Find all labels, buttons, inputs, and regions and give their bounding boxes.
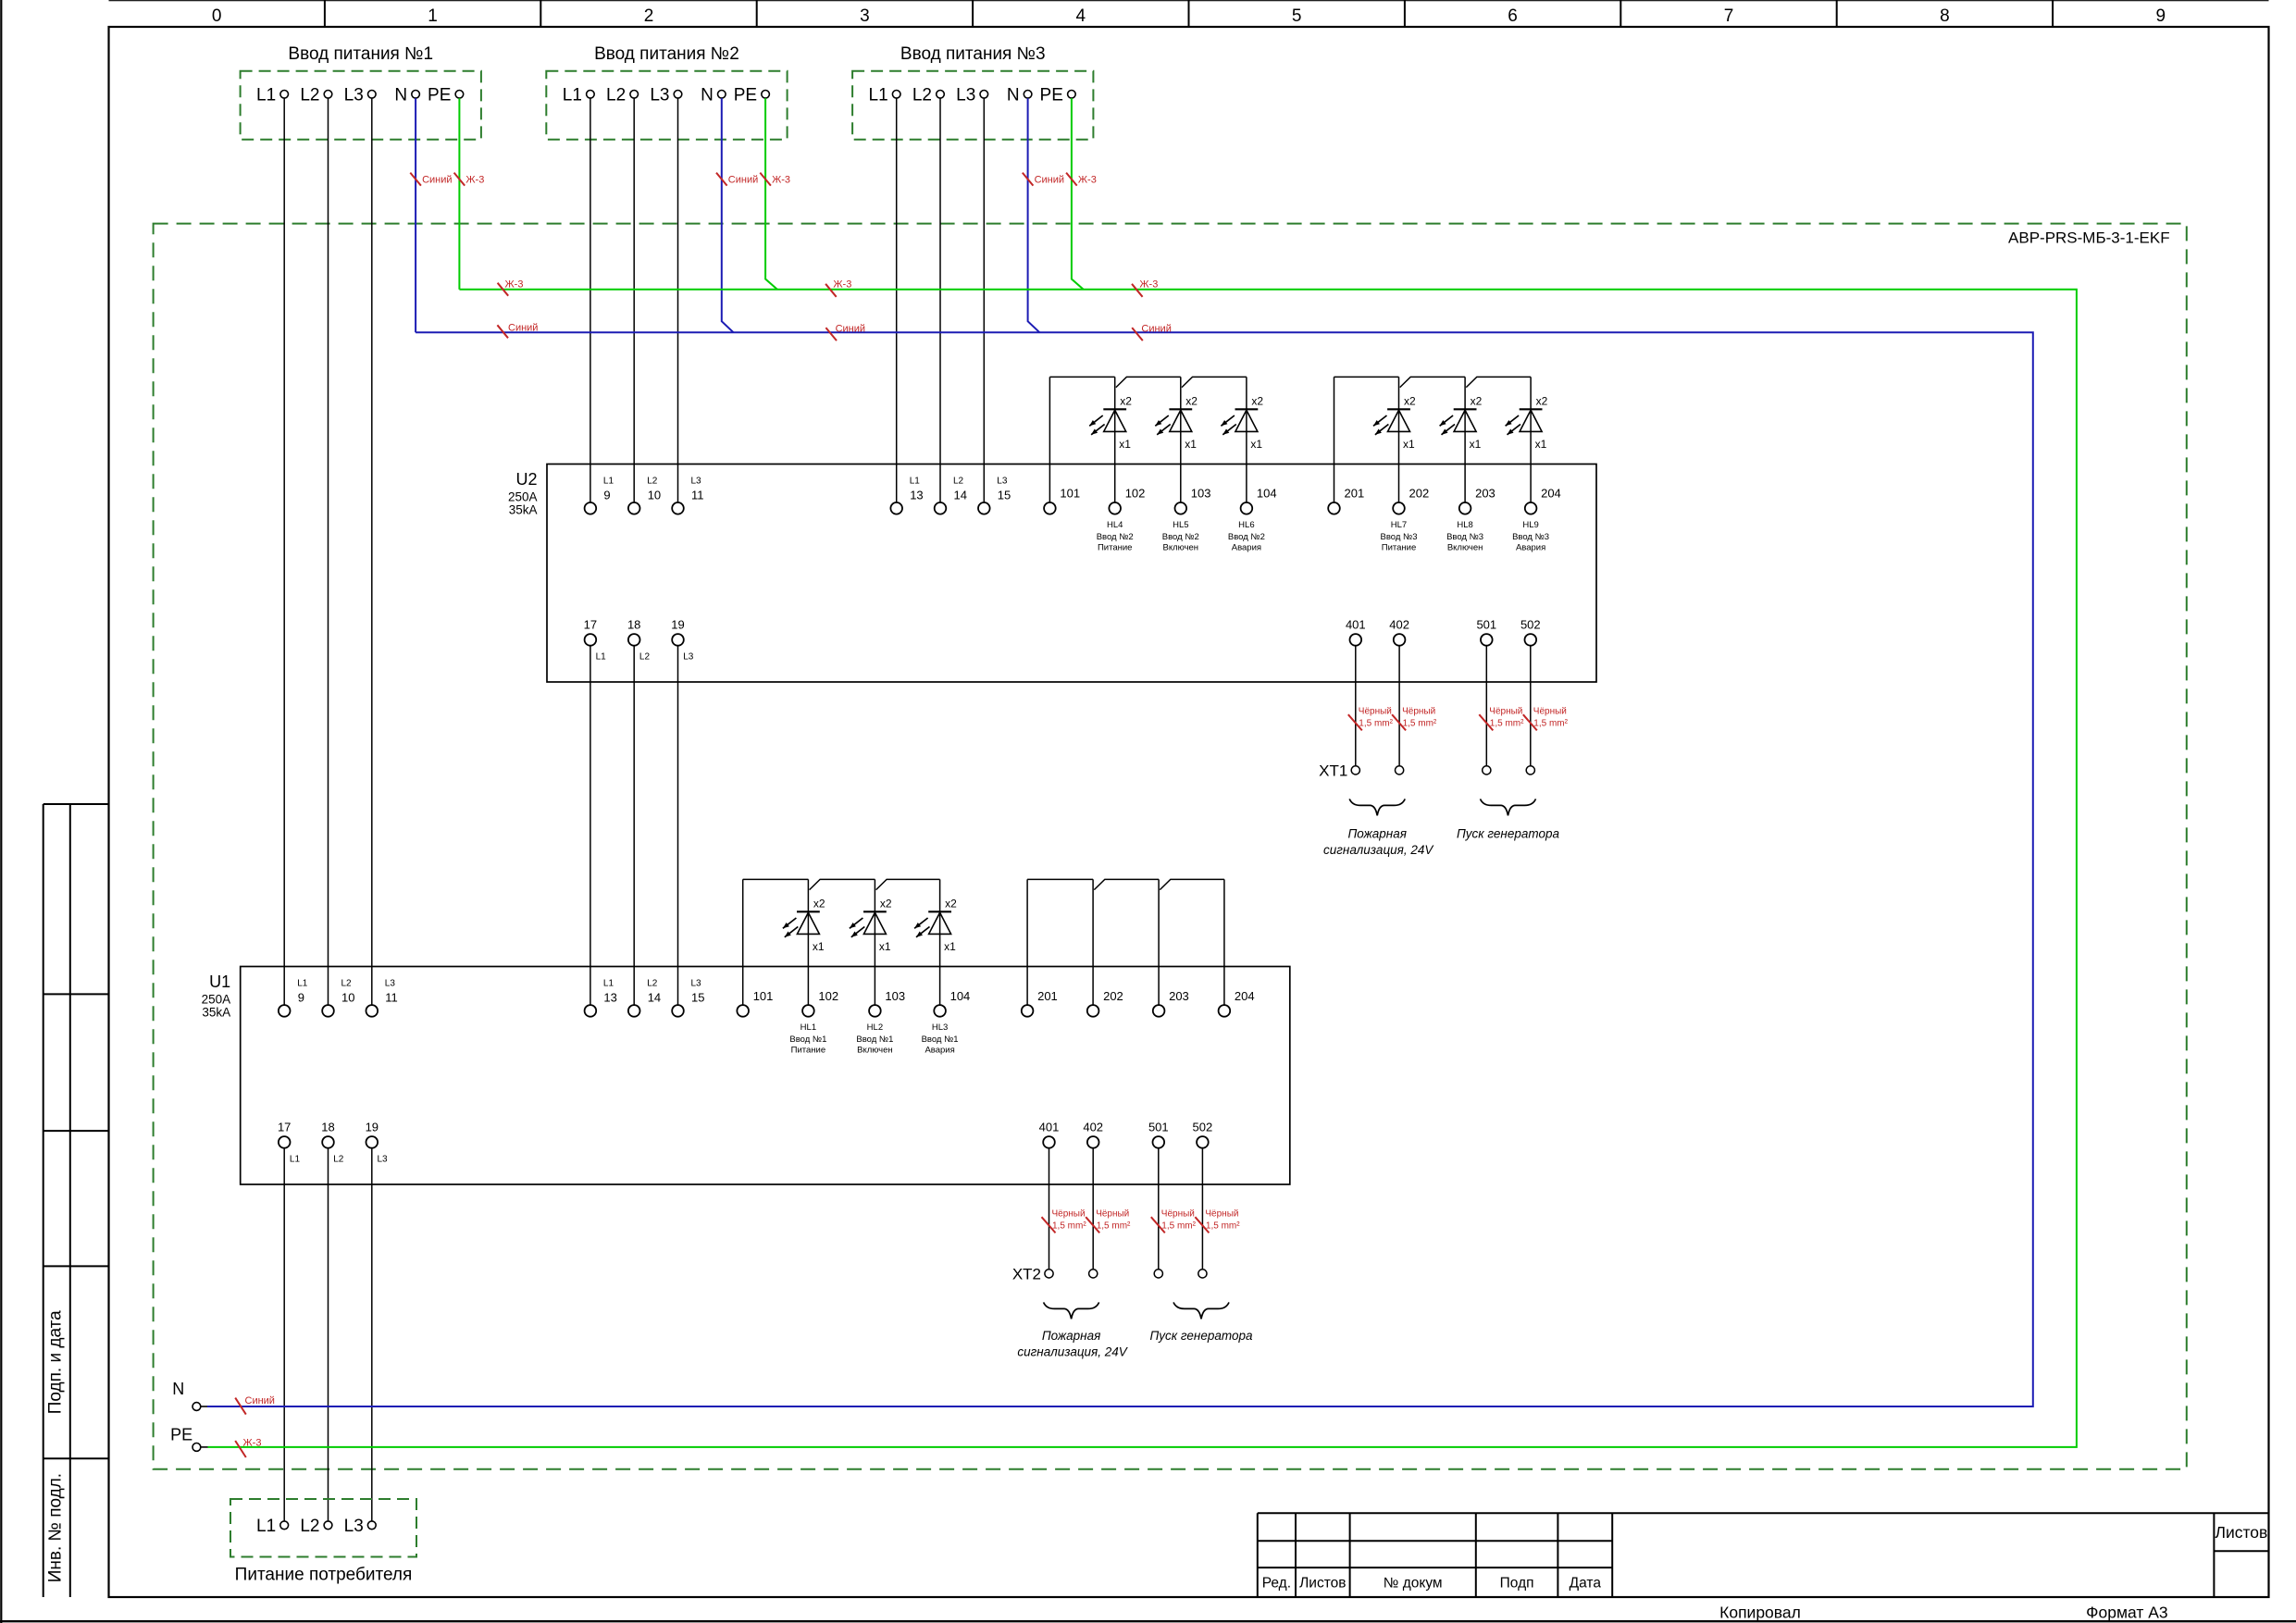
wire to XT2 pin 1: [1049, 1148, 1050, 1270]
svg-text:402: 402: [1083, 1120, 1103, 1134]
svg-text:Чёрный: Чёрный: [1161, 1209, 1195, 1220]
terminal 202 of U1: [1087, 1005, 1099, 1017]
red wire marking Чёрный (XT2 pin 1): [1042, 1209, 1087, 1233]
svg-text:Ввод №3: Ввод №3: [1380, 532, 1417, 542]
svg-text:x1: x1: [1185, 438, 1197, 451]
consumer terminal L1: [280, 1521, 289, 1530]
terminal 11 of U2: [672, 502, 684, 514]
N bus horizontal + right drop (blue): [207, 332, 2033, 1406]
wire U1 output 17 to consumer: [283, 1148, 285, 1521]
page border left edge: [0, 0, 2, 1623]
svg-text:Ввод №1: Ввод №1: [789, 1035, 826, 1045]
marking Ж-3 on bottom PE bus: [235, 1438, 261, 1458]
svg-text:9: 9: [298, 991, 304, 1005]
LED HL8: [1440, 377, 1477, 502]
svg-text:35kA: 35kA: [202, 1006, 230, 1020]
svg-text:1: 1: [428, 6, 438, 26]
svg-text:N: N: [394, 86, 407, 105]
red wire marking Чёрный (XT2 pin 3): [1151, 1209, 1197, 1233]
svg-text:PE: PE: [428, 86, 451, 105]
svg-text:L2: L2: [912, 86, 932, 105]
svg-text:HL4: HL4: [1107, 520, 1123, 530]
wire U2 output 17-13 to U1 input: [590, 646, 591, 1005]
svg-text:x2: x2: [813, 898, 825, 911]
svg-text:x2: x2: [880, 898, 892, 911]
svg-text:104: 104: [1257, 487, 1277, 501]
svg-text:PE: PE: [734, 86, 757, 105]
terminal 14 of U2: [935, 502, 947, 514]
terminal 402: [1394, 634, 1406, 646]
svg-text:Синий: Синий: [836, 324, 865, 335]
svg-text:x2: x2: [945, 898, 957, 911]
svg-text:x1: x1: [1535, 438, 1547, 451]
svg-text:x2: x2: [1251, 395, 1263, 408]
red wire marking Чёрный (XT1 pin 3): [1479, 707, 1524, 731]
svg-text:Питание потребителя: Питание потребителя: [235, 1566, 413, 1585]
svg-text:Ввод питания №2: Ввод питания №2: [594, 44, 739, 64]
LED HL1: [783, 879, 820, 1005]
svg-text:L3: L3: [385, 979, 396, 989]
terminal L1 of Ввод №1: [280, 91, 289, 99]
wire PE Ввод №2 joint: [765, 98, 777, 290]
marking Синий on N bus (1): [497, 323, 538, 339]
node PE: [170, 1426, 207, 1452]
terminal N of Ввод №3: [1024, 91, 1032, 99]
svg-text:10: 10: [648, 489, 661, 502]
svg-text:17: 17: [584, 617, 597, 631]
wire N Ввод №3 joint: [1028, 98, 1040, 332]
terminal 401: [1350, 634, 1362, 646]
marking Ж-3 on PE wire Ввод №2: [760, 173, 790, 186]
svg-text:19: 19: [366, 1120, 379, 1134]
terminal 11 of U1: [366, 1005, 379, 1017]
wire PE Ввод №3 joint: [1072, 98, 1084, 290]
svg-text:201: 201: [1345, 487, 1365, 501]
svg-text:402: 402: [1389, 617, 1409, 631]
XT1 terminal 3: [1483, 766, 1491, 774]
svg-text:Синий: Синий: [1035, 175, 1064, 186]
terminal 101 of U2: [1044, 502, 1056, 514]
svg-text:x1: x1: [944, 940, 956, 953]
svg-text:Ввод №1: Ввод №1: [856, 1035, 893, 1045]
terminal 17: [279, 1136, 291, 1148]
svg-text:Дата: Дата: [1570, 1576, 1602, 1592]
svg-text:HL9: HL9: [1522, 520, 1538, 530]
svg-text:1,5 mm²: 1,5 mm²: [1161, 1221, 1196, 1232]
svg-text:Синий: Синий: [508, 323, 538, 334]
terminal 17: [585, 634, 597, 646]
svg-text:L2: L2: [647, 477, 658, 487]
terminal 10 of U1: [322, 1005, 334, 1017]
terminal 102 of U2: [1109, 502, 1121, 514]
terminal 18: [628, 634, 640, 646]
red wire marking Чёрный (XT1 pin 4): [1523, 707, 1569, 731]
svg-text:13: 13: [603, 991, 616, 1005]
brace generator start (XT1): [1481, 799, 1536, 815]
consumer box Питание потребителя: [230, 1499, 416, 1557]
wire L2 Ввод №1 to U1 terminal: [328, 98, 329, 1005]
svg-text:104: 104: [950, 989, 971, 1003]
cabinet dashed boundary АВР-PRS-МБ-3-1-EKF: [154, 224, 2187, 1469]
svg-text:L2: L2: [300, 1517, 319, 1536]
wire L3 Ввод №3 to U2 terminal: [983, 98, 985, 502]
svg-text:5: 5: [1292, 6, 1302, 26]
svg-text:PE: PE: [1040, 86, 1063, 105]
wire bus over terminals 201-204 (U1): [1027, 879, 1224, 1005]
svg-text:сигнализация, 24V: сигнализация, 24V: [1017, 1344, 1128, 1358]
svg-text:Ж-3: Ж-3: [505, 279, 524, 291]
svg-text:L2: L2: [606, 86, 626, 105]
terminal L3 of Ввод №3: [980, 91, 988, 99]
svg-text:Ж-3: Ж-3: [1078, 175, 1097, 186]
wire U1 output 18 to consumer: [328, 1148, 329, 1521]
input feeder box Ввод питания №1: [241, 71, 481, 140]
svg-text:x1: x1: [1470, 438, 1482, 451]
wire N Ввод №1 (blue drop): [415, 98, 416, 332]
wire U2 output 18-14 to U1 input: [633, 646, 635, 1005]
svg-text:0: 0: [212, 6, 222, 26]
svg-text:L1: L1: [596, 651, 607, 662]
svg-text:Инв. № подл.: Инв. № подл.: [46, 1473, 66, 1582]
svg-text:L1: L1: [910, 477, 921, 487]
svg-text:L3: L3: [683, 651, 694, 662]
svg-text:N: N: [1007, 86, 1020, 105]
marking Синий on N wire Ввод №3: [1023, 173, 1064, 186]
svg-text:Ввод питания №3: Ввод питания №3: [900, 44, 1046, 64]
wire L3 Ввод №1 to U1 terminal: [371, 98, 373, 1005]
wire to XT1 pin 4: [1530, 646, 1532, 766]
svg-text:250A: 250A: [202, 993, 231, 1007]
terminal 18: [322, 1136, 334, 1148]
svg-text:401: 401: [1346, 617, 1366, 631]
svg-text:6: 6: [1508, 6, 1518, 26]
node N: [172, 1380, 207, 1410]
svg-text:103: 103: [885, 989, 905, 1003]
svg-text:L3: L3: [691, 477, 702, 487]
XT2 terminal 1: [1045, 1270, 1053, 1278]
XT2 terminal 3: [1154, 1270, 1162, 1278]
LED HL6: [1221, 377, 1258, 502]
svg-text:102: 102: [818, 989, 838, 1003]
svg-text:502: 502: [1193, 1120, 1213, 1134]
terminal 103 of U2: [1175, 502, 1187, 514]
page border top edge: [109, 0, 2269, 2]
wire L2 Ввод №2 to U2 terminal: [633, 98, 635, 502]
svg-text:Ввод №2: Ввод №2: [1162, 532, 1199, 542]
svg-text:1,5 mm²: 1,5 mm²: [1052, 1221, 1086, 1232]
svg-text:Ж-3: Ж-3: [1139, 279, 1158, 291]
terminal 9 of U1: [279, 1005, 291, 1017]
wire L1 Ввод №1 to U1 terminal: [283, 98, 285, 1005]
svg-text:N: N: [701, 86, 714, 105]
svg-text:1,5 mm²: 1,5 mm²: [1490, 719, 1524, 729]
svg-text:HL5: HL5: [1173, 520, 1188, 530]
svg-text:Ж-3: Ж-3: [465, 175, 484, 186]
svg-text:Чёрный: Чёрный: [1359, 707, 1392, 717]
svg-text:Копировал: Копировал: [1719, 1604, 1801, 1622]
terminal 103 of U1: [869, 1005, 881, 1017]
svg-text:XT2: XT2: [1012, 1265, 1041, 1282]
svg-text:L3: L3: [650, 86, 669, 105]
terminal 104 of U1: [934, 1005, 946, 1017]
wire L1 Ввод №3 to U2 terminal: [896, 98, 898, 502]
svg-text:1,5 mm²: 1,5 mm²: [1359, 719, 1393, 729]
XT2 terminal 2: [1089, 1270, 1098, 1278]
svg-text:4: 4: [1076, 6, 1086, 26]
svg-text:Питание: Питание: [1098, 543, 1133, 553]
svg-text:HL7: HL7: [1391, 520, 1407, 530]
svg-text:103: 103: [1191, 487, 1211, 501]
svg-text:Ж-3: Ж-3: [833, 279, 851, 291]
terminal 501: [1153, 1136, 1165, 1148]
terminal 501: [1481, 634, 1493, 646]
consumer terminal L3: [367, 1521, 376, 1530]
svg-text:HL2: HL2: [867, 1022, 883, 1033]
svg-text:№ докум: № докум: [1384, 1576, 1443, 1592]
marking Синий on N wire Ввод №2: [716, 173, 758, 186]
terminal L1 of Ввод №3: [892, 91, 900, 99]
svg-text:HL3: HL3: [932, 1022, 948, 1033]
svg-text:HL8: HL8: [1457, 520, 1472, 530]
svg-text:Включен: Включен: [857, 1046, 893, 1056]
svg-text:x2: x2: [1404, 395, 1416, 408]
terminal L1 of Ввод №2: [587, 91, 595, 99]
terminal L2 of Ввод №1: [324, 91, 332, 99]
svg-text:L3: L3: [956, 86, 975, 105]
svg-text:9: 9: [2156, 6, 2166, 26]
svg-text:U1: U1: [209, 973, 230, 991]
marking Синий on bottom N bus: [235, 1395, 275, 1415]
terminal 15 of U1: [672, 1005, 684, 1017]
ATS unit U1 box: [241, 967, 1290, 1185]
svg-text:Синий: Синий: [422, 175, 452, 186]
svg-text:202: 202: [1409, 487, 1430, 501]
svg-text:Ввод №3: Ввод №3: [1446, 532, 1483, 542]
LED HL2: [850, 879, 887, 1005]
svg-text:x1: x1: [1119, 438, 1131, 451]
terminal PE of Ввод №1: [455, 91, 464, 99]
svg-text:АВР-PRS-МБ-3-1-EKF: АВР-PRS-МБ-3-1-EKF: [2008, 229, 2170, 247]
svg-text:1,5 mm²: 1,5 mm²: [1403, 719, 1437, 729]
svg-text:3: 3: [860, 6, 870, 26]
LED HL9: [1506, 377, 1543, 502]
svg-text:Чёрный: Чёрный: [1533, 707, 1567, 717]
left attribute strip table: [43, 804, 109, 1597]
svg-text:1,5 mm²: 1,5 mm²: [1206, 1221, 1240, 1232]
svg-text:L3: L3: [378, 1154, 389, 1164]
terminal 202 of U2: [1393, 502, 1405, 514]
svg-text:Пожарная: Пожарная: [1042, 1329, 1100, 1343]
red wire marking Чёрный (XT2 pin 2): [1086, 1209, 1131, 1233]
svg-text:17: 17: [278, 1120, 291, 1134]
XT1 terminal 1: [1351, 766, 1359, 774]
wire U1 output 19 to consumer: [371, 1148, 373, 1521]
terminal L3 of Ввод №2: [674, 91, 682, 99]
brace fire alarm (XT1): [1349, 799, 1405, 815]
svg-text:Авария: Авария: [1232, 543, 1261, 553]
marking Ж-3 on PE wire Ввод №3: [1066, 173, 1097, 186]
svg-text:L1: L1: [869, 86, 888, 105]
marking Ж-3 on PE bus (1): [498, 279, 524, 296]
wire bus feeding HL1-HL3 from terminal 101 (U1): [743, 879, 940, 1005]
svg-text:L1: L1: [563, 86, 582, 105]
terminal 19: [366, 1136, 379, 1148]
svg-text:Питание: Питание: [791, 1046, 826, 1056]
terminal 402: [1087, 1136, 1099, 1148]
svg-text:Чёрный: Чёрный: [1402, 707, 1435, 717]
svg-text:XT1: XT1: [1319, 762, 1347, 779]
svg-text:250A: 250A: [508, 490, 538, 504]
svg-text:N: N: [172, 1380, 184, 1398]
svg-text:L2: L2: [333, 1154, 344, 1164]
svg-text:9: 9: [603, 489, 610, 502]
terminal 102 of U1: [802, 1005, 814, 1017]
svg-text:15: 15: [691, 991, 704, 1005]
svg-text:L2: L2: [341, 979, 353, 989]
svg-text:Ввод питания №1: Ввод питания №1: [288, 44, 433, 64]
svg-text:19: 19: [671, 617, 684, 631]
svg-text:13: 13: [910, 489, 923, 502]
svg-text:Синий: Синий: [245, 1395, 275, 1406]
svg-text:14: 14: [648, 991, 661, 1005]
svg-text:x1: x1: [879, 940, 891, 953]
svg-text:Авария: Авария: [1516, 543, 1545, 553]
red wire marking Чёрный (XT1 pin 2): [1392, 707, 1437, 731]
LED HL3: [914, 879, 951, 1005]
wire to XT1 pin 3: [1485, 646, 1487, 766]
svg-text:201: 201: [1037, 989, 1058, 1003]
svg-text:Ж-3: Ж-3: [772, 175, 790, 186]
svg-text:HL6: HL6: [1238, 520, 1254, 530]
svg-text:L3: L3: [691, 979, 702, 989]
svg-text:14: 14: [954, 489, 967, 502]
svg-text:10: 10: [341, 991, 354, 1005]
terminal N of Ввод №2: [718, 91, 726, 99]
XT1 terminal 2: [1396, 766, 1404, 774]
svg-text:L1: L1: [256, 86, 276, 105]
column ruler numbers 0-9: [212, 6, 2166, 26]
marking Ж-3 on PE wire Ввод №1: [454, 173, 485, 186]
svg-text:Питание: Питание: [1382, 543, 1417, 553]
svg-text:Ввод №3: Ввод №3: [1512, 532, 1549, 542]
marking Синий on N bus (3): [1132, 324, 1172, 341]
svg-text:Чёрный: Чёрный: [1205, 1209, 1238, 1220]
brace generator start (XT2): [1173, 1302, 1229, 1319]
svg-text:Листов: Листов: [2215, 1523, 2267, 1542]
svg-text:11: 11: [691, 489, 704, 502]
terminal 203 of U1: [1153, 1005, 1165, 1017]
svg-text:18: 18: [627, 617, 640, 631]
svg-text:L2: L2: [639, 651, 651, 662]
svg-text:L3: L3: [344, 86, 364, 105]
title block table: [1258, 1513, 2269, 1597]
terminal 10 of U2: [628, 502, 640, 514]
svg-text:Синий: Синий: [728, 175, 758, 186]
ATS unit U2 box: [547, 465, 1596, 683]
terminal L3 of Ввод №1: [368, 91, 377, 99]
svg-text:Ж-3: Ж-3: [243, 1438, 262, 1449]
svg-text:x2: x2: [1536, 395, 1548, 408]
svg-text:x1: x1: [813, 940, 825, 953]
svg-text:L3: L3: [344, 1517, 364, 1536]
svg-text:Включен: Включен: [1447, 543, 1483, 553]
svg-text:Ред.: Ред.: [1262, 1576, 1291, 1592]
svg-text:Подп. и дата: Подп. и дата: [46, 1310, 66, 1414]
svg-text:L1: L1: [603, 477, 614, 487]
svg-text:PE: PE: [170, 1426, 192, 1444]
wire bus feeding HL7-HL9 from terminal 201 (U2): [1334, 377, 1532, 502]
svg-text:1,5 mm²: 1,5 mm²: [1097, 1221, 1131, 1232]
red wire marking Чёрный (XT2 pin 4): [1195, 1209, 1240, 1233]
svg-text:204: 204: [1541, 487, 1561, 501]
input feeder box Ввод питания №3: [852, 71, 1093, 140]
wire to XT2 pin 3: [1158, 1148, 1160, 1270]
terminal 502: [1525, 634, 1537, 646]
svg-text:Ввод №2: Ввод №2: [1097, 532, 1134, 542]
marking Синий on N bus (2): [825, 324, 865, 341]
svg-text:L2: L2: [300, 86, 319, 105]
svg-text:Чёрный: Чёрный: [1489, 707, 1522, 717]
LED HL4: [1089, 377, 1126, 502]
terminal 9 of U2: [585, 502, 597, 514]
svg-text:Синий: Синий: [1141, 324, 1171, 335]
terminal 14 of U1: [628, 1005, 640, 1017]
svg-text:L1: L1: [603, 979, 614, 989]
svg-text:x2: x2: [1185, 395, 1198, 408]
PE bus horizontal + right drop (green): [208, 290, 2077, 1447]
wire L3 Ввод №2 to U2 terminal: [677, 98, 679, 502]
brace fire alarm (XT2): [1044, 1302, 1099, 1319]
svg-text:L1: L1: [297, 979, 308, 989]
svg-text:203: 203: [1475, 487, 1496, 501]
terminal 502: [1197, 1136, 1209, 1148]
svg-text:сигнализация, 24V: сигнализация, 24V: [1323, 843, 1434, 857]
svg-text:7: 7: [1724, 6, 1734, 26]
svg-text:x2: x2: [1120, 395, 1132, 408]
svg-text:L1: L1: [290, 1154, 301, 1164]
svg-text:202: 202: [1103, 989, 1123, 1003]
wire U2 output 19-15 to U1 input: [677, 646, 679, 1005]
column ruler ticks: [325, 0, 2053, 27]
svg-text:Листов: Листов: [1299, 1576, 1346, 1592]
terminal 101 of U1: [737, 1005, 749, 1017]
svg-text:x2: x2: [1471, 395, 1483, 408]
svg-text:Пуск генератора: Пуск генератора: [1150, 1329, 1253, 1343]
svg-text:x1: x1: [1250, 438, 1262, 451]
wire to XT2 pin 4: [1201, 1148, 1203, 1270]
terminal 104 of U2: [1241, 502, 1253, 514]
svg-text:203: 203: [1169, 989, 1189, 1003]
XT1 terminal 4: [1526, 766, 1534, 774]
consumer terminal L2: [324, 1521, 332, 1530]
wire to XT1 pin 1: [1355, 646, 1357, 766]
marking Ж-3 on PE bus (3): [1132, 279, 1158, 297]
svg-text:18: 18: [321, 1120, 334, 1134]
svg-text:U2: U2: [515, 470, 537, 489]
svg-text:Пуск генератора: Пуск генератора: [1457, 827, 1559, 841]
svg-text:HL1: HL1: [800, 1022, 816, 1033]
svg-text:Формат А3: Формат А3: [2086, 1604, 2167, 1622]
svg-text:Ввод №1: Ввод №1: [922, 1035, 959, 1045]
XT2 terminal 4: [1198, 1270, 1207, 1278]
wire to XT2 pin 2: [1092, 1148, 1094, 1270]
svg-text:15: 15: [998, 489, 1011, 502]
LED HL7: [1373, 377, 1410, 502]
svg-text:11: 11: [385, 991, 398, 1005]
wire bus feeding HL4-HL6 from terminal 101 (U2): [1049, 377, 1247, 502]
terminal 13 of U2: [890, 502, 902, 514]
svg-text:501: 501: [1476, 617, 1496, 631]
